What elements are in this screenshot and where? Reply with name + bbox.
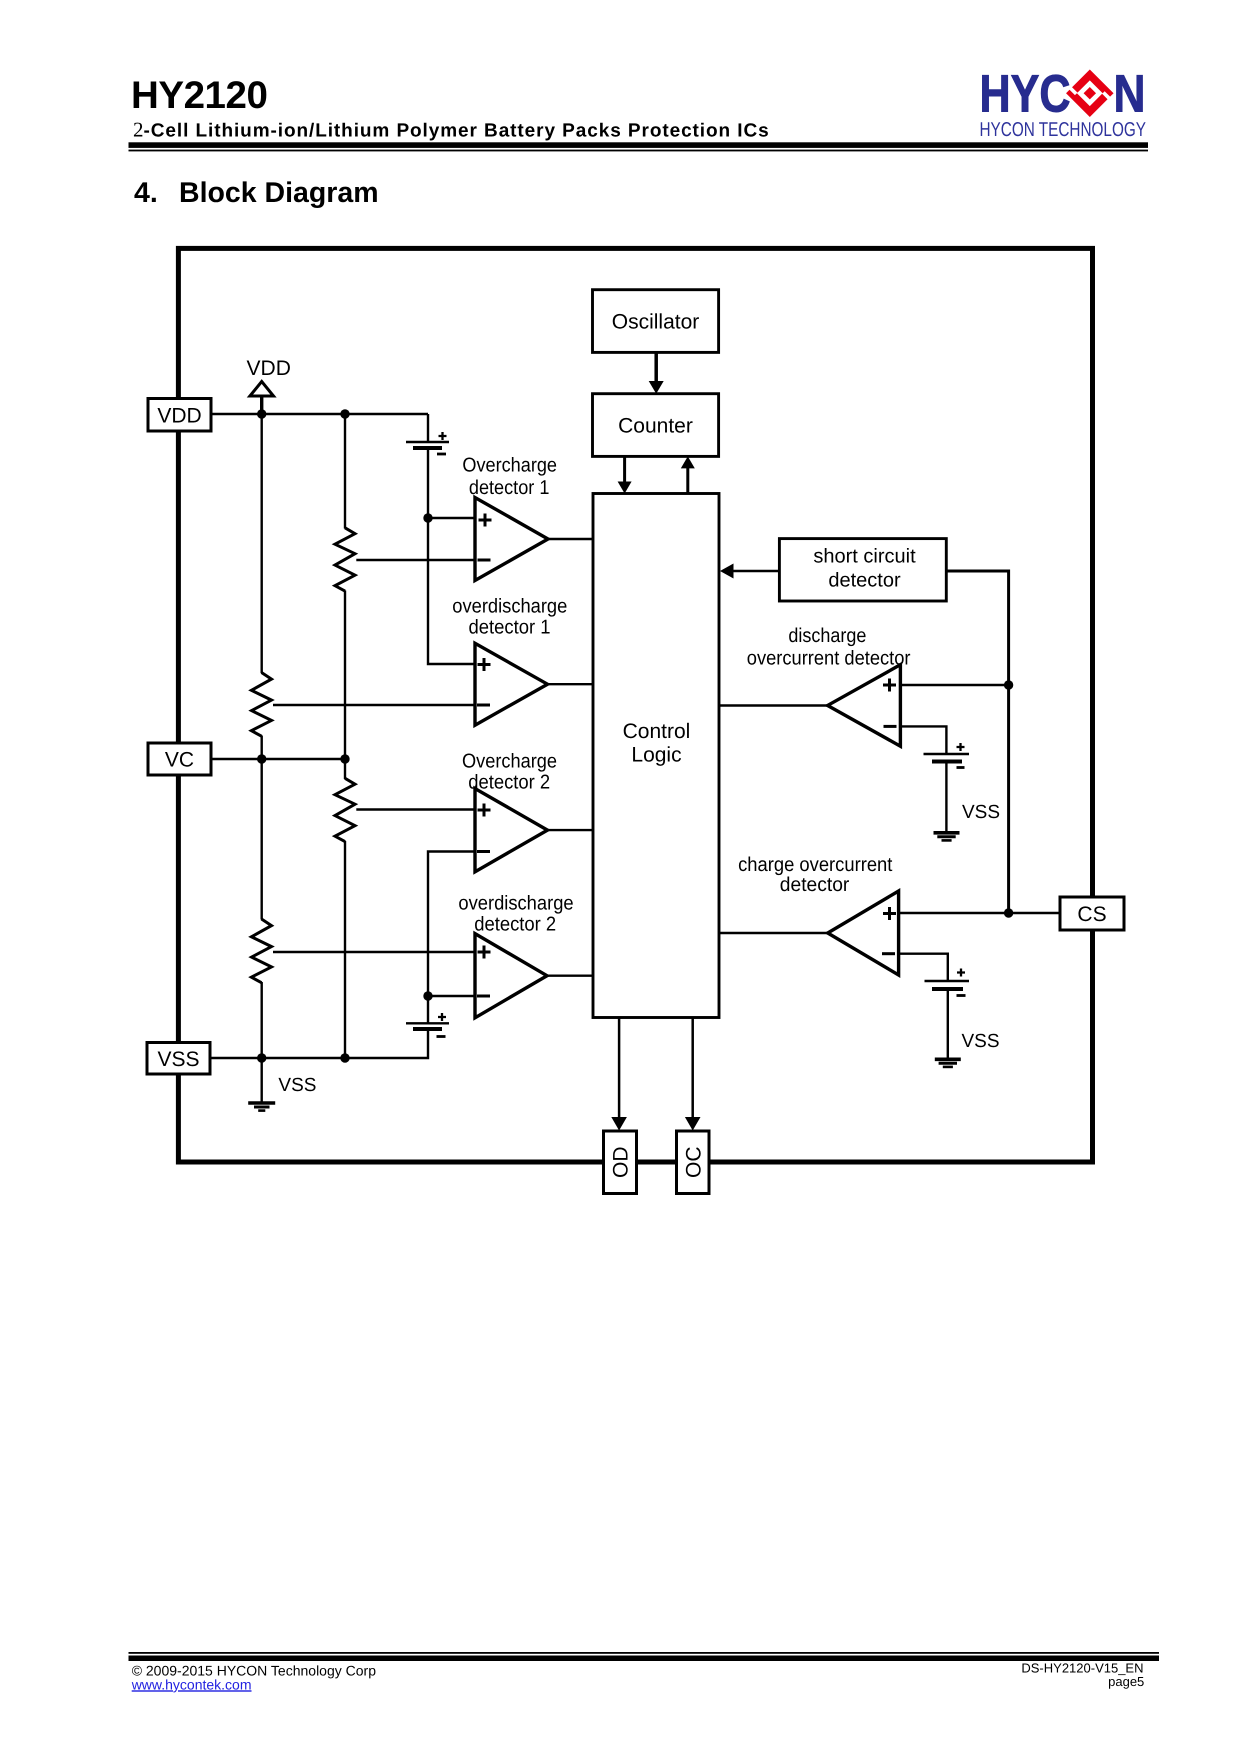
wire U1 output xyxy=(548,538,593,540)
wire U1 plus input xyxy=(428,517,475,519)
wire U3 minus and battery2 branch x428 xyxy=(428,852,475,1024)
svg-text:detector 2: detector 2 xyxy=(468,772,550,794)
svg-text:detector 1: detector 1 xyxy=(469,477,550,499)
resistor R2 xyxy=(251,673,271,737)
wire battery3 to ground xyxy=(945,762,947,832)
junction VDD rail at VDD symbol xyxy=(257,409,266,418)
svg-text:detector 1: detector 1 xyxy=(469,617,551,639)
header rule thick xyxy=(129,142,1149,148)
junction VDD rail at resistor chain xyxy=(340,409,349,418)
ground G3 xyxy=(935,1059,961,1067)
wire U4 minus input xyxy=(428,995,475,997)
battery B1 reference xyxy=(406,432,449,454)
svg-text:HY2120: HY2120 xyxy=(131,74,267,117)
port VSS xyxy=(147,1043,210,1075)
svg-text:VSS: VSS xyxy=(157,1048,199,1071)
svg-text:2-Cell Lithium-ion/Lithium Pol: 2-Cell Lithium-ion/Lithium Polymer Batte… xyxy=(133,118,770,142)
junction U1 plus node xyxy=(423,513,432,522)
op-amp U1 overcharge detector 1 xyxy=(475,498,548,581)
resistor R1 xyxy=(335,528,355,591)
svg-text:www.hycontek.com: www.hycontek.com xyxy=(131,1676,252,1692)
svg-text:detector: detector xyxy=(780,874,850,896)
wire U6 minus to battery4 xyxy=(899,954,948,980)
arrow short circuit detector to control logic xyxy=(720,564,779,579)
svg-text:VDD: VDD xyxy=(157,404,201,427)
box control logic U7 xyxy=(593,494,719,1018)
wire left chain x262 xyxy=(261,396,263,1102)
junction CS net at U6 plus xyxy=(1004,908,1013,917)
wire U5 plus input xyxy=(900,684,1008,686)
junction VSS rail right xyxy=(340,1053,349,1062)
port CS xyxy=(1060,897,1124,930)
resistor R4 xyxy=(251,919,271,983)
svg-text:Overcharge: Overcharge xyxy=(462,751,557,773)
wire VDD rail xyxy=(211,413,428,415)
footer rule thin xyxy=(129,1652,1160,1654)
diagram frame xyxy=(178,248,1092,1162)
port OD xyxy=(604,1131,637,1194)
label overcharge detector 2 xyxy=(462,751,557,794)
svg-text:HYC: HYC xyxy=(980,65,1071,124)
svg-text:overdischarge: overdischarge xyxy=(452,596,567,618)
op-amp U4 overdischarge detector 2 xyxy=(475,934,547,1018)
svg-text:Oscillator: Oscillator xyxy=(612,311,700,334)
wire U5 minus to battery3 xyxy=(900,726,946,753)
box counter xyxy=(593,394,719,457)
wire U6 output xyxy=(719,932,828,934)
svg-text:VDD: VDD xyxy=(247,357,291,380)
header rule thin xyxy=(129,150,1149,152)
svg-text:HYCON TECHNOLOGY: HYCON TECHNOLOGY xyxy=(980,119,1147,141)
arrow control logic to OC xyxy=(685,1018,701,1131)
svg-text:VSS: VSS xyxy=(962,1031,1000,1052)
svg-text:VC: VC xyxy=(165,749,194,772)
box oscillator xyxy=(593,290,719,353)
label overdischarge detector 1 xyxy=(452,596,567,639)
wire CS net vertical xyxy=(946,571,1008,913)
junction VSS rail left xyxy=(257,1053,266,1062)
arrow control logic to OD xyxy=(611,1018,627,1131)
op-amp U3 overcharge detector 2 xyxy=(475,789,548,872)
svg-text:discharge: discharge xyxy=(788,625,866,647)
svg-text:VSS: VSS xyxy=(962,802,1000,823)
wire U2 output xyxy=(548,683,594,685)
arrow control logic to counter xyxy=(681,456,695,493)
label overcharge detector 1 xyxy=(462,454,557,499)
wire U6 plus input to CS xyxy=(899,912,1060,914)
box short circuit detector xyxy=(779,539,946,601)
wire U4 output xyxy=(547,975,593,977)
port VDD xyxy=(148,399,211,432)
wire battery4 to ground xyxy=(947,989,949,1058)
svg-text:charge overcurrent: charge overcurrent xyxy=(738,854,893,876)
logo diamond xyxy=(1066,69,1114,117)
op-amp U6 charge overcurrent detector xyxy=(828,891,899,975)
ground G1 xyxy=(248,1103,275,1111)
svg-text:Control: Control xyxy=(623,720,691,743)
svg-text:Counter: Counter xyxy=(618,415,693,438)
wire battery1 branch x428 xyxy=(428,414,475,664)
junction U4 minus node xyxy=(423,991,432,1000)
footer rule thick xyxy=(129,1656,1160,1662)
svg-text:detector: detector xyxy=(828,570,901,592)
VDD supply symbol xyxy=(250,382,274,415)
battery B3 reference xyxy=(924,743,970,768)
label overdischarge detector 2 xyxy=(458,892,573,935)
op-amp U5 discharge overcurrent detector xyxy=(828,665,901,747)
wire U2 minus input from R2 tap xyxy=(273,704,475,706)
junction VC rail left xyxy=(257,754,266,763)
svg-text:short circuit: short circuit xyxy=(813,546,916,568)
wire mid chain x345 xyxy=(344,414,346,1058)
label discharge overcurrent detector xyxy=(747,625,911,670)
svg-text:overcurrent detector: overcurrent detector xyxy=(747,648,911,670)
battery B4 reference xyxy=(925,969,970,996)
wire U5 output xyxy=(719,704,828,706)
wire U4 plus input from R4 tap xyxy=(273,951,475,953)
wire U3 plus input from R3 tap xyxy=(356,808,475,810)
port OC xyxy=(677,1131,710,1194)
svg-text:detector 2: detector 2 xyxy=(474,913,556,935)
port VC xyxy=(148,743,211,775)
arrow oscillator to counter xyxy=(649,352,664,393)
resistor R3 xyxy=(335,778,355,841)
svg-text:VSS: VSS xyxy=(278,1075,316,1096)
svg-text:4.: 4. xyxy=(134,177,158,209)
junction CS net at U5 plus xyxy=(1004,680,1013,689)
ground G2 xyxy=(934,833,960,841)
svg-text:page5: page5 xyxy=(1108,1674,1144,1689)
wire U1 minus input from R1 tap xyxy=(356,559,475,561)
svg-text:CS: CS xyxy=(1077,903,1106,926)
wire VC rail xyxy=(211,758,345,760)
svg-text:OC: OC xyxy=(683,1146,706,1178)
svg-text:Logic: Logic xyxy=(631,744,681,767)
battery B2 reference xyxy=(406,1013,449,1037)
svg-text:Overcharge: Overcharge xyxy=(462,454,557,476)
op-amp U2 overdischarge detector 1 xyxy=(475,643,548,725)
wire VSS rail xyxy=(210,1029,428,1058)
arrow counter to control logic xyxy=(618,456,632,493)
wire U3 output xyxy=(548,829,594,831)
svg-text:overdischarge: overdischarge xyxy=(458,892,573,914)
junction VC rail right xyxy=(340,754,349,763)
svg-text:Block Diagram: Block Diagram xyxy=(179,177,379,209)
label charge overcurrent detector xyxy=(738,854,893,896)
svg-text:OD: OD xyxy=(610,1146,633,1178)
svg-text:N: N xyxy=(1114,65,1146,124)
